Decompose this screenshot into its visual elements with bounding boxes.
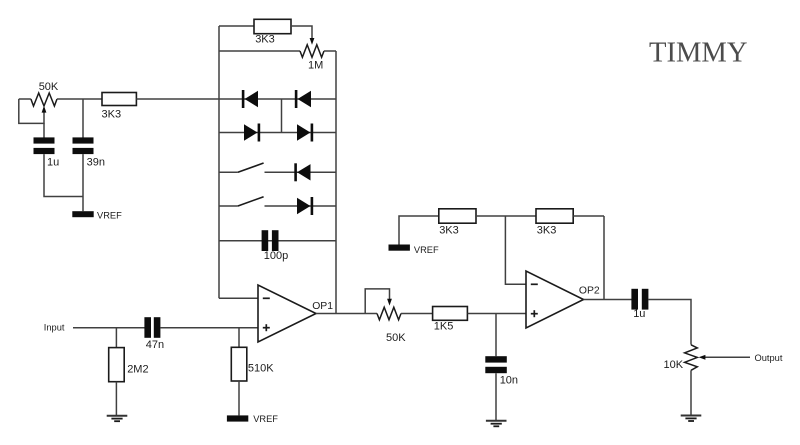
svg-text:50K: 50K: [386, 332, 406, 344]
wire OP2 output: [584, 299, 632, 301]
resistor 510K: [231, 347, 274, 381]
wire 1u bottom to VREF rail: [44, 154, 83, 196]
wire 1K5 to OP2 plus: [468, 313, 526, 315]
wire row 5 (100p): [219, 240, 336, 242]
capacitor 47n: [144, 317, 164, 351]
resistor 3K3 (OP2 feedback): [536, 209, 573, 237]
diode D1 (row1 left, pointing left): [242, 90, 258, 108]
wire OP1 output: [316, 313, 377, 315]
diode D2 (row1 right, pointing left): [295, 90, 311, 108]
svg-text:100p: 100p: [264, 250, 288, 262]
wire 2M2 top lead: [115, 328, 117, 348]
svg-text:VREF: VREF: [97, 211, 122, 221]
resistor 2M2: [109, 348, 149, 382]
ground (10n): [486, 421, 507, 427]
diode D3 (row2 left, pointing right): [244, 124, 260, 142]
wire 3K3 to output rail: [573, 215, 604, 217]
wire 3K3 junction to second 3K3: [476, 215, 536, 217]
wire 1u top lead: [43, 123, 45, 138]
switch SW1b: [238, 197, 264, 206]
wire feedback right rail: [335, 51, 337, 314]
wiper arrow (10K): [699, 355, 706, 360]
wire 2M2 bottom lead: [115, 382, 117, 416]
svg-text:3K3: 3K3: [537, 225, 557, 237]
capacitor 10n: [485, 356, 518, 386]
svg-text:2M2: 2M2: [127, 363, 148, 375]
resistor 3K3 (OP2 input): [439, 209, 476, 237]
resistor 1K5: [433, 307, 468, 333]
svg-text:50K: 50K: [39, 81, 59, 93]
op-amp OP1: [258, 285, 333, 342]
svg-text:Input: Input: [44, 323, 65, 333]
wire 510K top lead: [238, 328, 240, 348]
ground (input network): [107, 416, 128, 422]
wiper arrow (50K): [42, 106, 47, 113]
power VREF (510K): [227, 414, 278, 424]
svg-text:OP2: OP2: [579, 286, 600, 297]
power VREF (top-left): [72, 211, 122, 221]
svg-text:3K3: 3K3: [102, 109, 122, 121]
wire 39n bottom lead: [82, 154, 84, 211]
wire 50K left lead: [19, 98, 31, 100]
svg-text:OP1: OP1: [312, 301, 333, 312]
wire diode row 2: [219, 132, 336, 134]
wire mid junction row1-row2: [281, 99, 283, 133]
wiper arrow (50K drive): [387, 299, 392, 306]
wire 39n top lead: [82, 99, 84, 138]
wire 1u to 10K pot: [648, 300, 691, 345]
svg-text:10n: 10n: [500, 375, 518, 387]
wire 50K wiper loop: [19, 99, 44, 123]
wire diode row 1: [219, 98, 336, 100]
wire row 3 right: [265, 171, 337, 173]
svg-text:1u: 1u: [633, 308, 645, 320]
capacitor 1u (output): [631, 289, 648, 320]
wire 510K bottom lead: [238, 381, 240, 415]
svg-text:VREF: VREF: [414, 245, 439, 255]
ground (output): [681, 416, 702, 422]
wire row 3 left: [219, 171, 238, 173]
wire 3K3 to 1M wiper: [291, 26, 312, 39]
svg-text:1M: 1M: [308, 59, 323, 71]
wire wiper to output: [705, 356, 750, 358]
svg-text:Output: Output: [755, 353, 783, 363]
wire 10K bottom lead: [690, 370, 692, 415]
wiper arrow (1M): [310, 38, 315, 45]
wire 10n bottom lead: [495, 373, 497, 420]
svg-text:3K3: 3K3: [255, 34, 275, 46]
switch SW1a: [238, 163, 264, 172]
potentiometer 10K (volume): [664, 345, 698, 371]
diode D4 (row2 right, pointing right): [297, 124, 313, 142]
wire input line: [73, 327, 145, 329]
potentiometer 1M: [300, 45, 324, 72]
resistor 3K3 (feedback top): [254, 19, 291, 45]
svg-text:3K3: 3K3: [439, 225, 459, 237]
potentiometer 50K (drive): [377, 307, 406, 344]
resistor 3K3 (input series): [102, 93, 137, 121]
wire 3K3 to diode network: [136, 98, 219, 100]
svg-text:10K: 10K: [664, 359, 684, 371]
potentiometer 50K (gain, top-left): [31, 81, 59, 106]
svg-text:TIMMY: TIMMY: [649, 38, 748, 69]
wire input to op-amp plus: [161, 327, 259, 329]
svg-text:1K5: 1K5: [434, 321, 454, 333]
capacitor 100p: [262, 230, 289, 262]
capacitor 1u (gain): [34, 137, 60, 168]
svg-text:47n: 47n: [146, 339, 164, 351]
wire minus input stub OP1: [219, 297, 258, 299]
wire VREF to 3K3: [399, 216, 439, 245]
wire 50K to 3K3: [57, 98, 102, 100]
svg-text:VREF: VREF: [253, 414, 278, 424]
svg-text:510K: 510K: [248, 362, 274, 374]
diode D5 (row3, pointing left): [294, 163, 310, 181]
wire feedback down to OP2 output: [603, 216, 605, 300]
wire 1M right lead: [324, 50, 336, 52]
op-amp OP2: [526, 271, 600, 328]
diode D6 (row4, pointing right): [297, 197, 313, 215]
wire row 4 left: [219, 205, 238, 207]
svg-text:1u: 1u: [47, 156, 59, 168]
wire top to 3K3 feedback: [219, 25, 254, 27]
wire row 4 right: [265, 205, 337, 207]
wire 50K drive wiper loop: [365, 289, 389, 314]
wire 1M left lead: [219, 50, 300, 52]
wire 10n top lead: [495, 314, 497, 357]
capacitor 39n: [73, 137, 105, 168]
wire junction down to OP2 minus: [505, 216, 526, 284]
wire 50K to 1K5: [401, 313, 433, 315]
svg-text:39n: 39n: [87, 156, 105, 168]
wire feedback left rail: [218, 26, 220, 298]
power VREF (OP2 bias): [389, 245, 440, 256]
